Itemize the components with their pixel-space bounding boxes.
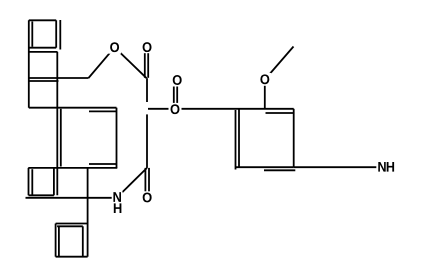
ring F top inner double	[57, 225, 83, 227]
ring A top	[29, 19, 56, 21]
ring D left inner double	[60, 109, 62, 167]
label mask N7	[112, 192, 123, 204]
label mask O6	[141, 191, 154, 204]
atom label O4	[171, 104, 180, 114]
ring E bottom	[29, 194, 54, 196]
double bond C2=O2 line1	[144, 47, 146, 78]
ring B bottom / bond to CH2	[29, 77, 89, 79]
double bond C5=O6 line2	[148, 168, 150, 198]
atom label O1	[110, 42, 119, 52]
ring D top inner double	[89, 110, 117, 112]
ring F bottom	[56, 256, 88, 258]
double bond O3=O4 line2	[176, 80, 178, 109]
ring A bottom	[29, 47, 56, 49]
bond ring G to O5	[264, 80, 266, 109]
label mask O1	[108, 41, 121, 54]
ring E inner-left double	[31, 169, 33, 195]
double bond C2=O2 line2	[147, 47, 149, 78]
ring A right	[55, 20, 57, 47]
ring F top	[56, 223, 88, 225]
atom label H7	[114, 203, 122, 213]
atom label NH-H	[387, 162, 394, 172]
bond chain to O4 to ring right	[148, 108, 294, 110]
bond O5 to CH3	[265, 47, 294, 80]
ring F left inner double	[58, 226, 60, 256]
label mask O4	[169, 103, 182, 116]
label mask O5	[258, 73, 271, 86]
ring E left	[28, 168, 30, 195]
label mask H7	[112, 203, 123, 215]
bond CH2 to O1	[89, 47, 115, 78]
ring G right	[293, 109, 295, 167]
bond C5 to N7	[117, 168, 147, 197]
atom label N7	[113, 192, 121, 202]
double bond C5=O6 line1	[144, 168, 146, 198]
ring F right inner double	[82, 226, 84, 256]
label mask O2	[141, 41, 154, 53]
wire chain lower	[146, 114, 148, 167]
ring A inner-left double	[31, 22, 33, 47]
ring C bottom / ring D top	[29, 107, 117, 109]
bond quaternary C to N	[26, 197, 118, 199]
ring E right	[53, 168, 55, 195]
atom label O5	[260, 74, 269, 84]
ring G bottom	[236, 166, 294, 168]
atom label O3	[173, 75, 182, 85]
atom label NH-N	[378, 162, 385, 172]
ring C top	[29, 80, 59, 82]
ring G left	[238, 109, 240, 167]
ring G bottom outer double	[264, 169, 295, 171]
double bond O3=O4 line1	[173, 80, 175, 109]
bond quaternary C vertical / ring F right	[87, 168, 89, 257]
label mask NH	[376, 161, 396, 173]
ring G left outer double	[235, 110, 237, 170]
ring G top inner double	[266, 112, 294, 114]
bond O1 to C2	[115, 47, 147, 78]
label mask O3	[171, 74, 184, 87]
ring D bottom / ring E top long wire	[28, 167, 117, 169]
bond ring G to NH	[294, 166, 382, 168]
atom label O2	[143, 42, 152, 52]
ring B top	[29, 51, 58, 53]
wire left edge A B C	[28, 20, 30, 107]
ring F left	[55, 224, 57, 257]
ring A outer-right double	[59, 20, 61, 50]
ring D right edge	[116, 108, 118, 168]
ring D bottom inner double	[89, 163, 117, 165]
atom label O6	[143, 192, 152, 202]
wire chain C2 down	[146, 78, 148, 102]
wire right edge B C D E	[56, 52, 58, 195]
